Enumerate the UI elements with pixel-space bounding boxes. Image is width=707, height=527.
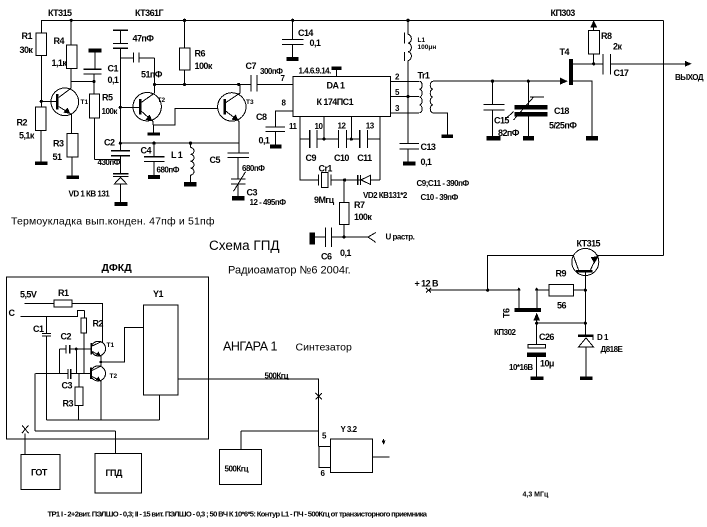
svg-text:10*16В: 10*16В: [509, 363, 533, 372]
wire GOT drop with X: [22, 425, 29, 454]
resistor R7: [339, 180, 372, 239]
resistor R1: [20, 20, 47, 107]
svg-text:C10 - 39пФ: C10 - 39пФ: [421, 193, 459, 202]
svg-text:АНГАРА 1: АНГАРА 1: [223, 340, 278, 354]
wire left drop to lower rail: [34, 374, 36, 432]
ground below C18: [523, 136, 534, 140]
svg-text:C2: C2: [61, 332, 72, 342]
svg-text:Т3: Т3: [246, 99, 254, 106]
pin 11: [289, 117, 300, 140]
svg-text:R5: R5: [102, 93, 113, 103]
node +12V supply: [415, 256, 539, 308]
wire pin 8 to C8: [276, 111, 293, 127]
svg-text:56: 56: [557, 301, 566, 311]
svg-text:10: 10: [315, 122, 324, 131]
svg-text:VD2 КВ131*2: VD2 КВ131*2: [363, 191, 408, 200]
ground below R3: [67, 176, 79, 180]
capacitor C2 430pF: [98, 138, 131, 168]
wire top supply rail: [41, 19, 664, 22]
ground below L1: [184, 182, 197, 186]
svg-text:C3: C3: [247, 188, 258, 198]
svg-text:C3: C3: [62, 381, 73, 391]
capacitor C13 0,1: [399, 142, 436, 167]
svg-text:КТ361Г: КТ361Г: [135, 8, 163, 18]
svg-text:430пФ: 430пФ: [98, 158, 121, 167]
wire varicap node vertical: [119, 58, 122, 151]
svg-text:12 - 495пФ: 12 - 495пФ: [250, 198, 287, 207]
transistor T2 dfkd: [90, 366, 117, 420]
wire tank rail: [120, 142, 239, 145]
svg-text:500Кгц: 500Кгц: [265, 371, 289, 380]
svg-text:0,1: 0,1: [259, 136, 270, 146]
ground below VD1: [115, 202, 128, 206]
svg-text:КТ315: КТ315: [48, 8, 72, 18]
ground below R2: [35, 161, 47, 165]
transistor T2: [120, 93, 223, 133]
pin 10: [315, 117, 325, 140]
svg-text:Y 3.2: Y 3.2: [341, 425, 358, 434]
svg-text:C9;C11 - 390пФ: C9;C11 - 390пФ: [417, 179, 470, 188]
svg-text:R3: R3: [53, 139, 64, 149]
varicap VD2 KV131*2: [358, 139, 408, 200]
svg-text:C8: C8: [256, 112, 267, 122]
ground below Tr1 secondary: [442, 134, 453, 138]
inductor L1 tank coil: [171, 143, 194, 182]
svg-text:C4: C4: [141, 146, 152, 156]
trimmer capacitor C18 5/25pF: [514, 81, 578, 136]
svg-text:51: 51: [53, 152, 62, 162]
transistor T1: [41, 88, 88, 133]
svg-text:КТ315: КТ315: [577, 239, 601, 249]
svg-text:Т2: Т2: [158, 97, 166, 104]
svg-text:VD 1 КВ 131: VD 1 КВ 131: [69, 190, 111, 199]
varicap VD1 KV131: [69, 156, 129, 202]
capacitor C7 300pF: [246, 61, 294, 92]
capacitor C2 dfkd: [60, 332, 91, 374]
svg-text:4,3 МГц: 4,3 МГц: [523, 492, 549, 499]
svg-text:0,1: 0,1: [310, 38, 321, 48]
svg-text:47пФ: 47пФ: [133, 34, 155, 44]
svg-text:11: 11: [289, 122, 298, 131]
svg-text:R2: R2: [93, 319, 104, 329]
block GPD: [95, 431, 142, 493]
capacitor C1 dfkd: [33, 317, 51, 421]
svg-text:КП302: КП302: [494, 328, 517, 337]
capacitor C6 0,1: [315, 228, 368, 262]
ground below C8: [270, 145, 281, 149]
ground below C13: [403, 162, 415, 166]
capacitor C11: [357, 130, 380, 163]
chassis bar above C1: [89, 48, 102, 69]
svg-text:Т1: Т1: [81, 99, 89, 106]
svg-text:Радиоаматор №6 2004г.: Радиоаматор №6 2004г.: [228, 265, 351, 277]
svg-text:5,5V: 5,5V: [20, 290, 37, 300]
capacitor C3 dfkd: [36, 369, 91, 391]
inductor L1 choke 100uH: [404, 20, 436, 143]
svg-text:680пФ: 680пФ: [242, 164, 265, 173]
wire oscillator output horizontal: [155, 83, 251, 86]
svg-text:Y1: Y1: [153, 289, 163, 299]
svg-text:500Кгц: 500Кгц: [225, 465, 249, 474]
capacitor C26 10uF electrolytic: [509, 332, 554, 376]
svg-text:82пФ: 82пФ: [498, 128, 520, 138]
svg-text:T4: T4: [560, 47, 570, 57]
capacitor 51pF: [120, 52, 162, 79]
svg-text:Т2: Т2: [110, 373, 118, 380]
svg-text:R2: R2: [17, 118, 28, 128]
svg-text:C5: C5: [210, 155, 221, 165]
svg-text:Д818Е: Д818Е: [601, 345, 624, 354]
svg-text:DA 1: DA 1: [327, 81, 346, 91]
svg-text:C2: C2: [104, 138, 115, 148]
svg-text:C: C: [9, 308, 16, 318]
ground below C14: [287, 57, 299, 61]
capacitor C17: [603, 54, 692, 78]
svg-text:C1: C1: [33, 324, 44, 334]
ground below C15: [487, 136, 501, 140]
wire T2 collector vertical: [153, 58, 156, 93]
capacitor C9: [300, 130, 339, 163]
svg-text:9Мгц: 9Мгц: [314, 195, 335, 205]
zener diode D1 D818E: [578, 333, 623, 377]
crystal Cr1 9MHz: [300, 139, 380, 205]
svg-text:ТР1 I - 2+2вит. ПЭЛШО - 0,3;: ТР1 I - 2+2вит. ПЭЛШО - 0,3; II - 15 вит…: [48, 510, 428, 519]
svg-text:Т6: Т6: [502, 308, 512, 318]
svg-text:0,1: 0,1: [340, 248, 351, 258]
capacitor C15 82pF: [483, 81, 519, 138]
svg-text:Т1: Т1: [107, 342, 115, 349]
svg-text:R1: R1: [58, 288, 69, 298]
svg-text:C10: C10: [334, 153, 349, 163]
svg-text:30к: 30к: [20, 45, 34, 55]
node C input: [9, 308, 85, 318]
svg-text:Термоукладка вып.конден. 47пф: Термоукладка вып.конден. 47пф и 51пф: [11, 216, 215, 228]
svg-text:5/25пФ: 5/25пФ: [549, 121, 577, 131]
block Y32 filter: [319, 425, 390, 478]
resistor R2: [17, 107, 46, 161]
svg-text:L 1: L 1: [171, 150, 183, 160]
wire inner ground rail: [47, 419, 160, 421]
svg-text:Схема ГПД: Схема ГПД: [209, 238, 280, 253]
svg-text:10μ: 10μ: [540, 359, 554, 369]
block 500kHz: [220, 431, 319, 485]
transistor T3: [218, 84, 254, 153]
capacitor C4 680pF: [141, 143, 180, 175]
svg-text:1,1к: 1,1к: [52, 58, 68, 68]
svg-text:680пФ: 680пФ: [157, 166, 180, 175]
svg-text:К 174ПС1: К 174ПС1: [317, 97, 354, 107]
svg-text:ДФКД: ДФКД: [102, 262, 133, 274]
svg-text:13: 13: [366, 122, 375, 131]
svg-text:Cr1: Cr1: [319, 164, 333, 174]
svg-text:R7: R7: [354, 200, 365, 210]
svg-text:C15: C15: [494, 116, 509, 126]
resistor R9 56: [549, 269, 585, 311]
ground below C3: [232, 196, 244, 201]
transistor T1 dfkd: [90, 341, 114, 366]
resistor R6: [179, 20, 212, 84]
svg-text:C6: C6: [321, 252, 332, 262]
svg-text:1.4.6.9.14.: 1.4.6.9.14.: [299, 67, 332, 76]
resistor R2 dfkd: [81, 311, 104, 374]
capacitor C8 0,1: [256, 112, 285, 146]
capacitor C10: [334, 130, 360, 163]
svg-text:U растр.: U растр.: [386, 233, 415, 242]
svg-text:КП303: КП303: [551, 8, 576, 18]
block GOT: [21, 454, 60, 489]
svg-text:0,1: 0,1: [421, 157, 432, 167]
resistor R3: [53, 133, 78, 175]
pin 13: [366, 117, 380, 140]
svg-text:ВЫХОД: ВЫХОД: [675, 73, 704, 82]
svg-text:R3: R3: [63, 399, 74, 409]
svg-text:R6: R6: [195, 49, 206, 59]
capacitor C5 680pF: [210, 153, 266, 179]
capacitor C1 0,1: [84, 64, 119, 94]
svg-text:100к: 100к: [102, 107, 119, 116]
svg-text:R9: R9: [556, 269, 567, 279]
svg-text:2к: 2к: [613, 42, 622, 52]
svg-text:R1: R1: [22, 31, 33, 41]
capacitor 47pF with thermal mount stub: [113, 30, 154, 58]
svg-text:R8: R8: [601, 31, 612, 41]
terminal bar left of C6: [310, 232, 316, 244]
svg-text:5,1к: 5,1к: [19, 131, 35, 141]
svg-text:ГПД: ГПД: [106, 468, 123, 478]
svg-text:0,1: 0,1: [108, 75, 119, 85]
transistor T5 KT315 buffer: [488, 239, 664, 336]
ground below C26: [531, 376, 544, 380]
wire T1 emitter to Y1: [100, 328, 144, 364]
svg-text:100к: 100к: [354, 212, 372, 222]
variable capacitor C3 12-495pF: [231, 172, 286, 207]
pin 12: [338, 117, 352, 140]
svg-text:D 1: D 1: [597, 333, 609, 342]
svg-text:Синтезатор: Синтезатор: [296, 342, 353, 354]
svg-text:C9: C9: [306, 153, 317, 163]
block DFKD box: [6, 262, 208, 439]
svg-text:C17: C17: [614, 68, 629, 78]
transistor T6 KP302 FET: [494, 290, 585, 344]
wire right feedback vertical: [663, 20, 665, 255]
resistor R3 dfkd: [63, 374, 84, 421]
svg-text:100μн: 100μн: [418, 44, 437, 51]
svg-text:L1: L1: [418, 37, 426, 44]
transistor T4 FET: [560, 47, 603, 136]
ground below T4 source: [586, 136, 598, 140]
svg-text:C26: C26: [539, 332, 554, 342]
capacitor C14 0,1: [282, 20, 321, 57]
ground below D1: [580, 377, 593, 381]
svg-text:100к: 100к: [195, 61, 213, 71]
svg-text:C7: C7: [246, 61, 257, 71]
transformer Tr1: [390, 71, 567, 135]
svg-text:+ 12 В: + 12 В: [415, 279, 440, 289]
ground below T2 emitter: [148, 132, 161, 135]
svg-text:ГОТ: ГОТ: [31, 468, 48, 478]
resistor R5: [90, 93, 121, 160]
svg-text:C18: C18: [554, 106, 569, 116]
wire Y1 output 500kHz: [178, 371, 322, 446]
svg-text:C1: C1: [108, 64, 119, 74]
svg-text:51пФ: 51пФ: [141, 70, 163, 80]
svg-text:C13: C13: [421, 142, 436, 152]
svg-text:R4: R4: [54, 36, 65, 46]
resistor R1 dfkd: [25, 288, 103, 342]
resistor R8 2k: [588, 20, 622, 64]
op-amp mixer DA1 K174PS1: [281, 67, 391, 117]
svg-text:Tr1: Tr1: [418, 71, 430, 81]
ground below C4: [148, 175, 160, 179]
svg-text:C14: C14: [298, 28, 313, 38]
terminal arrow U rastr: [368, 233, 415, 243]
wire GPD feed: [35, 430, 115, 432]
crystal block Y1: [144, 289, 178, 420]
svg-text:12: 12: [338, 122, 347, 131]
svg-text:C11: C11: [357, 153, 372, 163]
resistor R4: [52, 20, 96, 88]
